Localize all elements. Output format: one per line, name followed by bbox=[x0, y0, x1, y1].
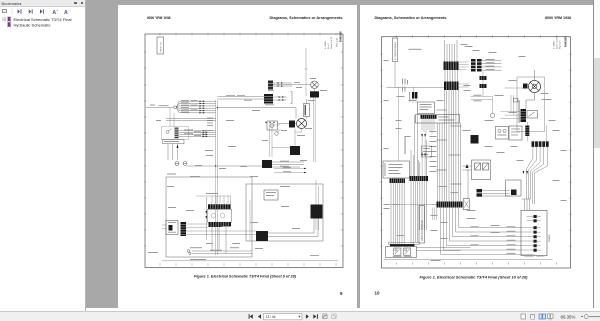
connector housing body bbox=[208, 209, 232, 222]
svg-text:86.35%: 86.35% bbox=[561, 314, 576, 319]
svg-text:80481998: 80481998 bbox=[340, 31, 343, 42]
svg-text:Electrical Schematic T3/T4 Fin: Electrical Schematic T3/T4 Final bbox=[14, 17, 72, 22]
schematic sheet frame bbox=[145, 34, 343, 268]
zoom out button bbox=[581, 316, 583, 318]
previous page button bbox=[258, 314, 261, 319]
left branch box bbox=[421, 146, 431, 157]
svg-text:SHEET 9C: SHEET 9C bbox=[160, 41, 162, 52]
J4 riser pair bbox=[316, 180, 319, 230]
page number box bbox=[264, 313, 303, 319]
scattered reference labels bbox=[396, 46, 559, 261]
K1 input stubs bbox=[162, 225, 166, 229]
relay block KR bbox=[290, 146, 300, 155]
mini pair drop wires bbox=[413, 87, 416, 103]
svg-text:8000 YRM 1938: 8000 YRM 1938 bbox=[545, 15, 572, 20]
motor to relay wire bbox=[295, 129, 302, 147]
lamp L1 bbox=[311, 81, 319, 89]
M2 feed wires bbox=[411, 140, 427, 176]
fanout wire tags bbox=[470, 226, 515, 254]
sheet id text block top-right (rotated) bbox=[325, 31, 343, 49]
svg-text:Diagrams, Schematics or Arrang: Diagrams, Schematics or Arrangements bbox=[270, 15, 344, 20]
motor M (circle with terminals) bbox=[528, 81, 540, 93]
P1 to P3 wires bbox=[445, 70, 458, 82]
vertical connector strip C2 (striped) bbox=[525, 126, 529, 137]
svg-text:80481998: 80481998 bbox=[564, 36, 567, 47]
expand bookmark icon 3 bbox=[40, 9, 44, 13]
rotated tag DECREASE bbox=[409, 92, 410, 102]
K fan-down wires bbox=[526, 147, 547, 204]
lamp chain links bbox=[307, 89, 315, 119]
fuse F1 bbox=[175, 162, 179, 166]
K1 wires to J2 bbox=[186, 224, 256, 235]
options square icon bbox=[2, 9, 7, 14]
two page continuous icon bbox=[547, 314, 553, 320]
fuse F2 bbox=[183, 162, 187, 166]
first page button bbox=[249, 314, 253, 319]
connector bar J1 (striped) bbox=[208, 204, 231, 209]
inner margin line bbox=[162, 260, 338, 262]
R box labels bbox=[392, 255, 411, 258]
bundle crossing ticks bbox=[436, 110, 461, 184]
A+ text size icon bbox=[52, 8, 58, 16]
bottom harness wires bbox=[192, 227, 252, 254]
solenoid block J bbox=[470, 135, 478, 144]
up arrow node bbox=[465, 164, 468, 199]
svg-text:4 108845: 4 108845 bbox=[553, 40, 555, 49]
J3 loop wires to J4 bbox=[268, 219, 318, 237]
svg-text:Figure 1. Electrical Schematic: Figure 1. Electrical Schematic T3/T4 Fin… bbox=[419, 275, 528, 280]
left vertical feed wire bbox=[396, 87, 398, 161]
relay out labels bbox=[283, 167, 291, 172]
mini stack drop wire bbox=[482, 72, 484, 97]
svg-text:+: + bbox=[56, 8, 58, 12]
bus junction dots bbox=[215, 107, 218, 167]
controller enclosure box bbox=[166, 177, 252, 257]
small module box bbox=[264, 190, 278, 200]
splice node S1 bbox=[174, 106, 177, 109]
TB1 wire labels bbox=[184, 129, 201, 136]
horizontal harness wire bbox=[386, 86, 444, 88]
switch box SW1 bbox=[417, 102, 434, 114]
M1 drop wires bbox=[391, 183, 404, 244]
J4 label bbox=[310, 254, 319, 257]
connector E2 (dark striped) bbox=[264, 94, 273, 104]
F connector strip (striped) bbox=[420, 115, 436, 119]
10. TWIST MODULE title block (rotated) bbox=[392, 38, 397, 62]
junction dot row bbox=[265, 122, 274, 123]
twin terminal T bbox=[476, 189, 482, 197]
feed wire to motor bbox=[217, 108, 296, 119]
stepped feed wires bbox=[500, 95, 520, 118]
svg-text:Plymouth: Plymouth bbox=[558, 41, 561, 49]
vertical connector CH (striped) bbox=[520, 109, 526, 122]
svg-text:4 108845: 4 108845 bbox=[325, 40, 327, 49]
connector bar J2 (striped) bbox=[209, 222, 232, 227]
close icon bbox=[81, 2, 83, 4]
sidebar toolbar bbox=[0, 7, 85, 16]
lamp feed wire bbox=[273, 84, 311, 86]
previous view icon bbox=[323, 314, 328, 319]
bottom wire labels bbox=[148, 247, 239, 260]
pin icon bbox=[74, 2, 77, 4]
pump module box bbox=[383, 161, 410, 178]
N left rail wires bbox=[431, 205, 436, 220]
two page layout icon (active) bbox=[539, 314, 546, 319]
page 2 header text bbox=[374, 15, 571, 20]
bottom inter-wires bbox=[416, 248, 470, 251]
terminal row K (5 pins) bbox=[531, 141, 548, 147]
bookmark ribbon icon 1 bbox=[8, 17, 11, 22]
display module label (rotated box) bbox=[419, 206, 425, 244]
page 1 header text bbox=[147, 15, 343, 20]
left margin tags bbox=[383, 44, 566, 239]
sidebar title bar bbox=[0, 0, 85, 7]
svg-text:Diagrams, Schematics or Arrang: Diagrams, Schematics or Arrangements bbox=[374, 15, 447, 20]
vertical connector strip VK (striped) bbox=[181, 222, 187, 236]
T wires right bbox=[482, 191, 510, 197]
wire stub from left frame edge bbox=[146, 106, 174, 108]
aux sensor box I2 bbox=[509, 126, 522, 140]
arrow stub wires bbox=[422, 138, 425, 176]
connector bar M2 (striped) bbox=[409, 176, 428, 181]
svg-text:Plymouth: Plymouth bbox=[336, 37, 339, 47]
vertical scrollbar bbox=[593, 0, 600, 308]
TB1 label strip bbox=[162, 140, 184, 144]
ignition connector block bbox=[262, 160, 272, 168]
P box label bbox=[524, 256, 544, 257]
central connector bar N (striped) bbox=[436, 202, 462, 208]
mini connector pair bbox=[412, 92, 417, 99]
wires into frame connector top bbox=[521, 199, 530, 210]
N end cap bbox=[463, 199, 469, 210]
feed riser bbox=[527, 122, 546, 141]
frame edge tick marks bbox=[144, 33, 343, 266]
pin header P1 (striped) bbox=[443, 62, 458, 71]
rotated wire tags bbox=[402, 79, 408, 92]
motor lead wire bbox=[504, 87, 523, 89]
bus to connector wires bbox=[217, 97, 264, 100]
next page button bbox=[306, 314, 309, 319]
expand bookmark icon 2 bbox=[29, 9, 33, 13]
long module bar bbox=[415, 115, 459, 124]
svg-text:8000 YRM 1938: 8000 YRM 1938 bbox=[147, 15, 171, 20]
connector bracket bbox=[291, 92, 293, 104]
harness splice rings bbox=[187, 250, 191, 255]
selector switch SW bbox=[275, 129, 281, 135]
tilt assembly enclosure bbox=[517, 77, 545, 132]
inline connector at motor bbox=[289, 121, 295, 128]
zoom slider knob bbox=[584, 315, 588, 319]
header drop wires bbox=[444, 40, 457, 62]
left bundle bottom rail bbox=[383, 204, 436, 206]
relay K1 with hatch bbox=[166, 221, 178, 235]
small junction box bbox=[513, 98, 517, 102]
TB1 output wires with arrow pins bbox=[179, 131, 216, 137]
N fan-out wires to frame connector bbox=[440, 208, 521, 255]
label plate bbox=[304, 104, 310, 117]
harness wire pair bbox=[470, 97, 492, 114]
central vertical harness bundle bbox=[437, 90, 460, 202]
svg-text:13 / 46: 13 / 46 bbox=[266, 315, 276, 319]
wires into box S bbox=[462, 166, 471, 170]
rotated harness tag bbox=[404, 137, 405, 154]
zoom slider track bbox=[589, 316, 600, 318]
bottom status bar bbox=[0, 311, 600, 321]
sheet id text block top-right (rotated) bbox=[553, 35, 567, 49]
schematic sheet frame bbox=[381, 37, 570, 268]
bookmark ribbon icon 2 bbox=[8, 22, 11, 27]
junction block U bbox=[505, 180, 521, 196]
fan arrow marks bbox=[522, 171, 527, 174]
svg-text:89 x 4: 89 x 4 bbox=[328, 43, 330, 49]
motor M1 bbox=[297, 119, 307, 129]
single page layout icon bbox=[521, 314, 525, 319]
pin arrowheads of wire fan bbox=[200, 100, 206, 113]
continuous layout icon bbox=[530, 315, 534, 320]
svg-text:Sheet 9 of 28: Sheet 9 of 28 bbox=[330, 36, 333, 49]
tilt switch box bbox=[527, 111, 538, 119]
sheet 9C title block (rotated) bbox=[157, 37, 164, 54]
connector block J4 bbox=[311, 205, 323, 219]
harness arrow marks upper bbox=[421, 134, 426, 157]
page 2 white sheet bbox=[360, 5, 594, 308]
disconnect switch label bbox=[408, 49, 421, 50]
motor terminal block bbox=[523, 84, 528, 89]
svg-text:Sheet 10 of 28: Sheet 10 of 28 bbox=[555, 35, 558, 49]
splice ring bbox=[490, 113, 495, 118]
connector output wires bbox=[273, 83, 292, 100]
bookmark tree bbox=[0, 16, 85, 30]
lower connector block J3 bbox=[256, 231, 268, 241]
bundle wire tags bbox=[429, 131, 436, 172]
F drop wires bbox=[422, 119, 434, 134]
mini connector stack bbox=[479, 76, 486, 88]
svg-text:DISPLAY MODULE: DISPLAY MODULE bbox=[420, 220, 423, 241]
svg-text:-: - bbox=[68, 8, 69, 12]
connector stack CPS bbox=[268, 81, 273, 90]
tree expand box bbox=[3, 18, 6, 21]
relay block under lamp bbox=[310, 91, 319, 97]
frame connector box P (D-15) bbox=[521, 211, 547, 256]
fan to TB1 drop wires bbox=[170, 107, 174, 126]
P2 branch wires bbox=[482, 60, 502, 70]
twist module drop wire bbox=[394, 62, 396, 88]
aux box stub bbox=[249, 200, 251, 241]
svg-text:FRAME: FRAME bbox=[548, 234, 551, 242]
bus label column bbox=[207, 118, 213, 126]
relay drop wire pair bbox=[314, 98, 316, 163]
connector P3 (striped) bbox=[444, 82, 459, 91]
P3 side wires bbox=[458, 62, 468, 87]
svg-text:Hydraulic Schematic: Hydraulic Schematic bbox=[14, 22, 51, 27]
M2 drop wires bbox=[411, 181, 426, 244]
riser pair to F bar bbox=[414, 115, 417, 176]
wire pair labels bbox=[473, 59, 503, 101]
sensor box I bbox=[495, 127, 508, 140]
terminal board TB1 bbox=[162, 127, 189, 140]
feeder riser bbox=[305, 48, 308, 96]
connector bar M1 (striped) bbox=[389, 179, 405, 184]
wire to ignition block bbox=[187, 165, 262, 167]
switch to motor wire bbox=[278, 123, 297, 125]
J1 upper pins bbox=[212, 196, 231, 204]
switch box with contact bbox=[267, 121, 278, 130]
up arrow pin bbox=[177, 144, 179, 160]
wire labels on fan bbox=[159, 100, 198, 113]
J1 pin header rail bbox=[196, 195, 231, 197]
expand bookmark icon 1 bbox=[18, 9, 22, 13]
svg-text:10. TWIST MODULE: 10. TWIST MODULE bbox=[395, 41, 397, 60]
wire fan bundle to connector pins bbox=[176, 101, 215, 113]
toolbar separator bbox=[11, 8, 13, 15]
last page button bbox=[313, 314, 318, 319]
feed arrow column bbox=[206, 197, 208, 240]
bookmarks sidebar bbox=[0, 0, 86, 311]
inner margin line bbox=[383, 259, 552, 261]
block output wires bbox=[272, 162, 304, 167]
auxiliary enclosure box bbox=[246, 184, 323, 241]
switch riser wires bbox=[270, 125, 291, 157]
page 1 white sheet bbox=[118, 5, 357, 308]
pin grid connector P2 bbox=[471, 59, 482, 72]
motor feed wire bbox=[526, 70, 535, 109]
next view icon bbox=[332, 314, 337, 319]
svg-text:Figure 1. Electrical Schematic: Figure 1. Electrical Schematic T3/T4 Fin… bbox=[194, 274, 297, 279]
svg-text:10: 10 bbox=[374, 291, 379, 296]
svg-text:9: 9 bbox=[340, 291, 343, 296]
stack wire arrow marks bbox=[278, 82, 285, 101]
frame edge tick marks bbox=[380, 36, 571, 265]
wire labels mid bbox=[226, 95, 252, 101]
drop wires from terminal board bbox=[168, 144, 173, 160]
bus wire tags bbox=[167, 78, 316, 249]
relay out wires with pins bbox=[274, 169, 304, 173]
scattered reference labels bbox=[150, 90, 327, 229]
bottom relay box R bbox=[385, 242, 419, 257]
A- text size icon bbox=[64, 8, 69, 16]
wire pair to bus bbox=[166, 119, 216, 121]
vertical power bus bbox=[216, 100, 218, 255]
component box S with twin relays bbox=[471, 160, 490, 180]
connector stack pin gaps bbox=[264, 84, 273, 102]
